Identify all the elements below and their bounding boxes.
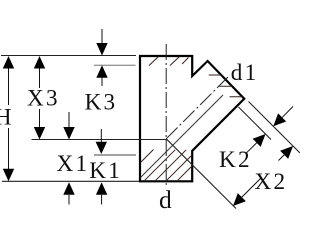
fitting body outline: [140, 56, 244, 181]
X1 top arrow: [63, 127, 74, 140]
K2 right arrow tail: [282, 107, 293, 118]
K1 socket depth line: [94, 154, 136, 156]
bottom edge extension line: [2, 180, 139, 182]
vertical centerline: [165, 44, 167, 186]
H dimension line: [8, 66, 10, 170]
X2 lower arrow: [233, 193, 246, 206]
K3 top arrow: [96, 43, 107, 56]
K1 bottom arrow stem: [101, 195, 103, 205]
X1 bottom arrow: [63, 182, 74, 195]
K2 left arrow tail: [246, 143, 257, 153]
bottom socket hatch: [141, 150, 192, 181]
svg-text:X1: X1: [57, 151, 90, 177]
branch end face extension line B: [249, 102, 301, 154]
K2 left arrow: [253, 134, 266, 147]
K3 top arrow stem: [101, 29, 103, 44]
K3 socket depth line (gray): [94, 64, 136, 66]
branch bore line: [141, 95, 224, 178]
svg-text:X3: X3: [27, 85, 60, 111]
svg-text:d: d: [159, 185, 174, 214]
X2 upper arrow: [280, 146, 293, 159]
top edge extension line: [1, 55, 136, 57]
K1 bottom arrow: [96, 182, 107, 195]
branch socket hatch: [209, 75, 243, 97]
X1 bottom arrow stem: [68, 195, 70, 205]
X1 top arrow stem: [68, 112, 70, 129]
svg-text:X2: X2: [255, 169, 288, 195]
X2 dimension line upper: [279, 155, 285, 161]
H bottom arrow: [3, 169, 14, 182]
svg-text:K3: K3: [85, 89, 118, 115]
svg-text:K2: K2: [219, 147, 252, 173]
X2 dimension line lower: [242, 178, 262, 198]
X3 bottom arrow: [34, 127, 45, 140]
svg-text:d1: d1: [231, 60, 259, 86]
top socket hatch: [149, 57, 189, 66]
X3 dimension line: [39, 66, 41, 130]
branch socket depth extension line A: [239, 107, 272, 140]
horizontal reference line through axis crossing: [32, 139, 167, 141]
K3 bottom arrow: [96, 65, 107, 78]
svg-text:H: H: [0, 105, 14, 131]
K1 top arrow: [96, 142, 107, 154]
K2 right arrow: [273, 113, 286, 126]
X3 top arrow: [34, 56, 45, 69]
K1 top arrow stem: [100, 129, 102, 143]
X2 reference extension line from axis crossing: [166, 139, 236, 209]
K3 bottom arrow stem: [101, 77, 103, 86]
svg-text:K1: K1: [89, 158, 122, 184]
branch axis centerline 45deg: [166, 77, 228, 139]
H top arrow: [3, 56, 14, 69]
